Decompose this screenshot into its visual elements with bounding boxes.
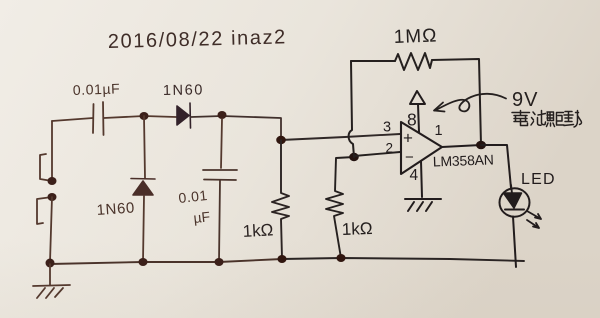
svg-text:µF: µF: [193, 208, 211, 226]
svg-text:8: 8: [407, 110, 417, 130]
resistor R2 1k (left): [272, 140, 289, 258]
wire: bottom ground rail (right half): [282, 258, 524, 261]
svg-text:4: 4: [410, 167, 419, 184]
svg-text:+: +: [403, 129, 413, 148]
svg-text:2016/08/22 inaz2: 2016/08/22 inaz2: [108, 26, 288, 53]
terminal: upper touch contact hook: [40, 154, 52, 181]
svg-text:1N60: 1N60: [163, 82, 204, 99]
wire: top rail left of C1: [52, 118, 93, 121]
diode D2 1N60 (shunt, pointing up): [131, 179, 155, 196]
wire: feedback top right segment and right vertical: [432, 59, 481, 145]
terminal: lower touch contact hook: [37, 197, 52, 224]
svg-text:1: 1: [435, 123, 443, 139]
wire: top rail D1 to corner, down to pin3 node: [191, 116, 281, 140]
LED D3: [500, 185, 530, 217]
wire: pin3 horizontal: [281, 134, 400, 140]
svg-text:0.01: 0.01: [178, 187, 209, 206]
wire: from rail down to C2: [221, 119, 222, 168]
node: rail dot below D2: [139, 258, 148, 266]
capacitor C1 0.01uF (series, top-left): [93, 102, 104, 135]
LED light arrows: [527, 211, 541, 228]
svg-text:1kΩ: 1kΩ: [242, 220, 274, 241]
svg-text:3: 3: [383, 120, 391, 136]
wire: from rail down to D2: [144, 116, 145, 178]
node: bottom-left rail dot: [46, 259, 55, 268]
feedback loop: left vertical with hop over pin3 wire: [349, 61, 354, 157]
label battery powered (kanji): [512, 111, 582, 128]
wire: pin4 stem: [421, 161, 422, 197]
wire: left vertical from rail to upper contact: [51, 121, 53, 181]
node: rail dot below R2: [278, 255, 287, 263]
power: pin8 stem: [418, 104, 419, 132]
node: rail dot at D2 top: [140, 112, 149, 120]
svg-text:1MΩ: 1MΩ: [393, 25, 437, 48]
svg-text:1kΩ: 1kΩ: [341, 219, 372, 239]
wire: output node to LED corner: [481, 145, 511, 188]
wire: bottom ground rail (left half): [50, 259, 282, 264]
diode D1 1N60 (series, horizontal): [177, 103, 191, 128]
node: rail dot at C2 top: [218, 111, 227, 119]
node: output junction dot: [476, 141, 486, 150]
wire: pin2 horizontal: [354, 152, 400, 156]
ground GND1 (bottom-left): [33, 264, 70, 298]
wire: top rail C1 to D1: [104, 116, 176, 118]
wire: D2 down to rail: [143, 196, 144, 262]
svg-text:1N60: 1N60: [96, 199, 135, 219]
wire: output from apex to node: [442, 145, 481, 147]
resistor R3 1k (right): [326, 157, 354, 258]
op-amp U1 LM358AN triangle: [401, 122, 442, 174]
svg-text:0.01µF: 0.01µF: [73, 80, 121, 98]
node: pin2 node dot: [349, 153, 359, 161]
svg-text:−: −: [405, 149, 414, 166]
wire: feedback top left segment: [351, 60, 395, 62]
annotation: curly arrow from 9V to supply: [434, 94, 506, 112]
svg-text:LED: LED: [521, 171, 556, 188]
node: rail dot below C2: [215, 258, 224, 266]
node: rail dot below R3: [337, 254, 346, 262]
svg-text:2: 2: [386, 141, 394, 156]
node: upper contact junction dot: [48, 177, 57, 185]
node: pin3 node dot: [276, 136, 286, 144]
wire: lower contact down to ground rail: [50, 197, 52, 262]
resistor R1 1M (feedback): [395, 53, 432, 70]
ground GND2 (op-amp pin4): [405, 199, 441, 211]
wire: C2 down to rail: [219, 180, 220, 262]
wire: LED to bottom rail: [513, 217, 516, 268]
node: lower contact junction dot: [48, 193, 57, 201]
power: V+ arrow symbol: [410, 91, 425, 104]
capacitor C2 0.01uF (shunt): [203, 170, 237, 180]
svg-text:9V: 9V: [512, 89, 538, 111]
svg-text:LM358AN: LM358AN: [433, 151, 494, 169]
